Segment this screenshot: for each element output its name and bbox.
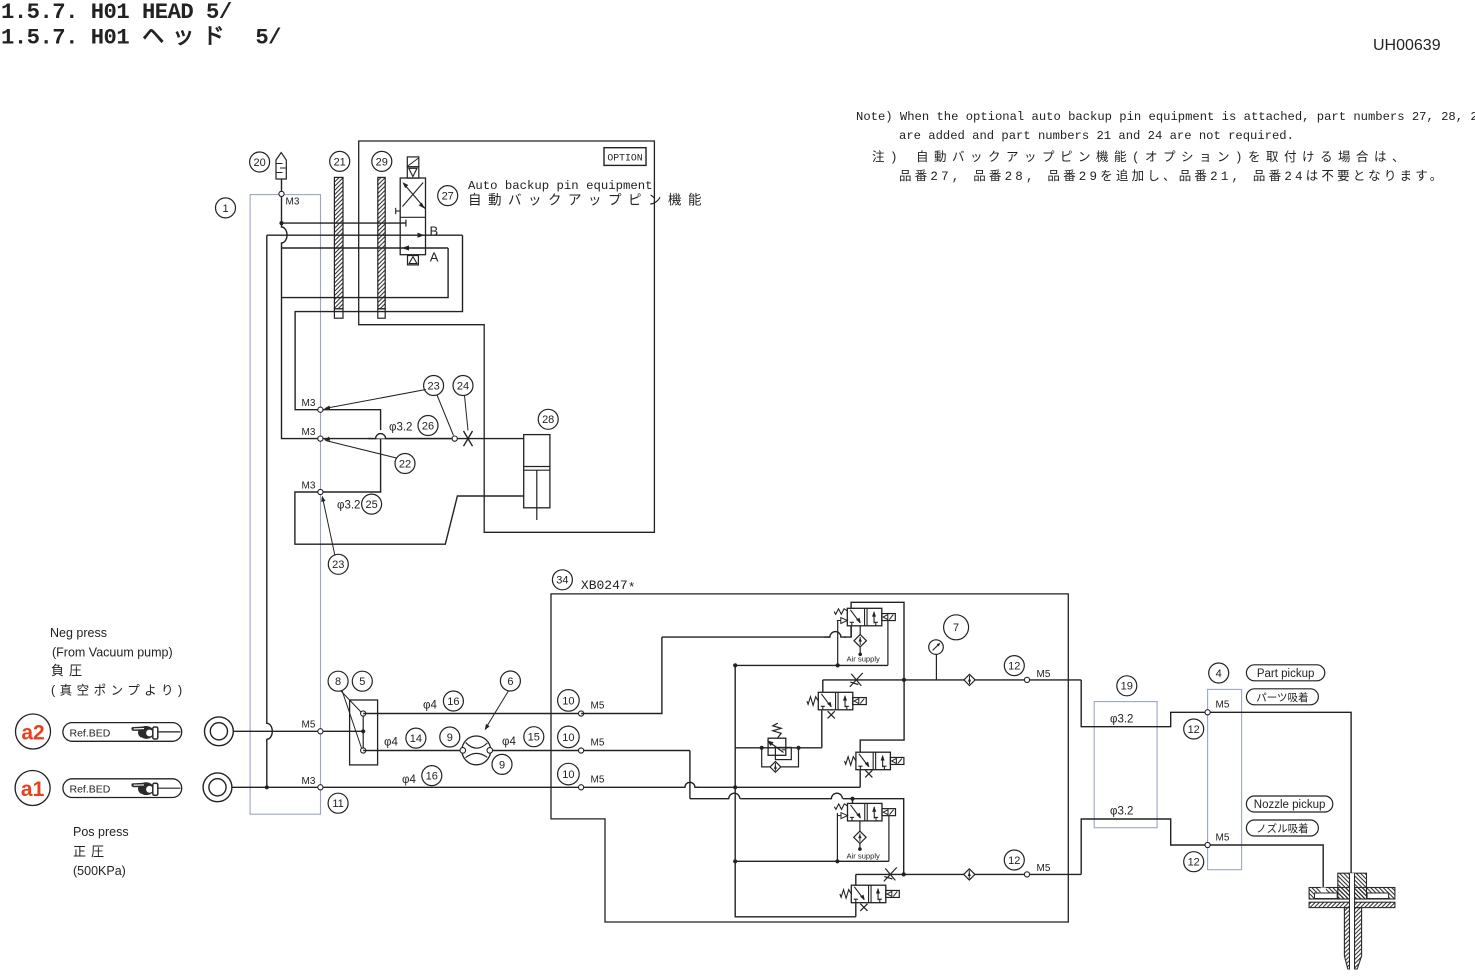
- svg-text:29: 29: [376, 156, 388, 168]
- svg-text:Air supply: Air supply: [847, 852, 881, 861]
- svg-text:12: 12: [1188, 857, 1200, 869]
- svg-text:Pos press: Pos press: [73, 825, 129, 839]
- svg-text:Note) When the optional auto b: Note) When the optional auto backup pin …: [856, 110, 1475, 124]
- svg-text:M5: M5: [1216, 833, 1230, 844]
- svg-text:M5: M5: [1037, 863, 1051, 874]
- svg-text:12: 12: [1008, 661, 1020, 673]
- svg-text:23: 23: [427, 380, 439, 392]
- svg-text:Ref.BED: Ref.BED: [70, 727, 111, 739]
- svg-text:Ref.BED: Ref.BED: [70, 784, 111, 796]
- svg-text:φ3.2: φ3.2: [389, 422, 412, 434]
- svg-text:6: 6: [507, 676, 513, 688]
- svg-text:Nozzle pickup: Nozzle pickup: [1254, 799, 1326, 811]
- svg-text:UH00639: UH00639: [1373, 37, 1441, 54]
- svg-text:M5: M5: [302, 720, 316, 731]
- svg-text:ノズル吸着: ノズル吸着: [1256, 822, 1309, 835]
- svg-text:25: 25: [365, 499, 377, 511]
- svg-text:1.5.7. H01 HEAD 5/: 1.5.7. H01 HEAD 5/: [1, 0, 232, 25]
- svg-text:Part pickup: Part pickup: [1257, 668, 1315, 680]
- svg-text:φ3.2: φ3.2: [1110, 806, 1133, 818]
- svg-text:12: 12: [1008, 855, 1020, 867]
- svg-text:9: 9: [447, 732, 453, 744]
- svg-text:21: 21: [334, 156, 346, 168]
- svg-text:Neg press: Neg press: [50, 626, 107, 640]
- svg-text:M5: M5: [591, 775, 605, 786]
- svg-text:7: 7: [953, 622, 959, 634]
- svg-text:(真空ポンプより): (真空ポンプより): [51, 684, 187, 698]
- svg-text:M5: M5: [1216, 700, 1230, 711]
- svg-text:Auto backup pin equipment: Auto backup pin equipment: [468, 179, 652, 193]
- svg-text:27: 27: [442, 191, 454, 203]
- svg-text:正圧: 正圧: [73, 844, 109, 859]
- svg-text:φ4: φ4: [502, 736, 516, 748]
- svg-text:XB0247*: XB0247*: [581, 578, 636, 596]
- svg-text:M3: M3: [302, 481, 316, 492]
- svg-text:26: 26: [422, 420, 434, 432]
- svg-text:are added and part numbers 21: are added and part numbers 21 and 24 are…: [899, 129, 1294, 143]
- svg-text:M3: M3: [302, 398, 316, 409]
- svg-text:a1: a1: [21, 778, 45, 801]
- svg-text:φ4: φ4: [402, 774, 416, 786]
- svg-text:φ3.2: φ3.2: [1110, 714, 1133, 726]
- svg-text:負圧: 負圧: [51, 663, 87, 678]
- svg-text:Air supply: Air supply: [847, 655, 881, 664]
- svg-text:φ3.2: φ3.2: [337, 500, 360, 512]
- svg-text:22: 22: [399, 458, 411, 470]
- svg-text:34: 34: [556, 575, 568, 587]
- svg-text:15: 15: [528, 732, 540, 744]
- svg-text:10: 10: [562, 695, 574, 707]
- svg-text:パーツ吸着: パーツ吸着: [1256, 691, 1308, 704]
- svg-text:24: 24: [457, 380, 469, 392]
- svg-text:M3: M3: [286, 197, 300, 208]
- svg-text:14: 14: [410, 733, 422, 745]
- svg-text:16: 16: [426, 771, 438, 783]
- svg-text:19: 19: [1121, 681, 1133, 693]
- svg-text:M3: M3: [302, 776, 316, 787]
- svg-text:M3: M3: [302, 427, 316, 438]
- svg-text:5: 5: [359, 676, 365, 688]
- svg-text:16: 16: [447, 696, 459, 708]
- svg-text:a2: a2: [21, 722, 44, 745]
- svg-text:品番27, 品番28, 品番29を追加し、品番21, 品番2: 品番27, 品番28, 品番29を追加し、品番21, 品番24は不要となります。: [899, 168, 1445, 184]
- svg-text:23: 23: [332, 559, 344, 571]
- svg-text:M5: M5: [1037, 669, 1051, 680]
- svg-text:10: 10: [562, 769, 574, 781]
- svg-text:φ4: φ4: [423, 700, 437, 712]
- svg-text:M5: M5: [591, 701, 605, 712]
- svg-text:M5: M5: [591, 738, 605, 749]
- svg-text:注) 自動バックアップピン機能(オプション)を取付ける場合: 注) 自動バックアップピン機能(オプション)を取付ける場合は、: [872, 149, 1410, 165]
- svg-text:8: 8: [335, 676, 341, 688]
- svg-text:A: A: [430, 250, 439, 265]
- svg-text:OPTION: OPTION: [607, 152, 642, 163]
- svg-text:1: 1: [222, 203, 228, 215]
- svg-text:φ4: φ4: [384, 737, 398, 749]
- svg-text:(From Vacuum pump): (From Vacuum pump): [52, 646, 173, 660]
- svg-text:12: 12: [1188, 724, 1200, 736]
- svg-text:11: 11: [332, 798, 343, 810]
- svg-text:9: 9: [499, 759, 505, 771]
- svg-text:28: 28: [542, 414, 554, 426]
- svg-text:(500KPa): (500KPa): [73, 864, 126, 878]
- svg-text:10: 10: [562, 732, 574, 744]
- svg-text:4: 4: [1216, 668, 1222, 680]
- svg-text:B: B: [430, 224, 439, 239]
- svg-text:自動バックアップピン機能: 自動バックアップピン機能: [468, 193, 708, 210]
- svg-text:20: 20: [253, 157, 265, 169]
